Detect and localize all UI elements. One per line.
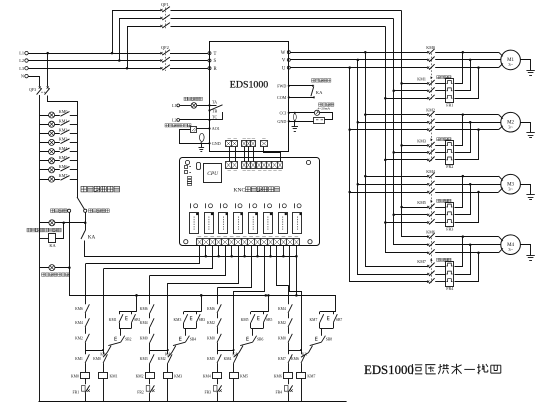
svg-text:QF2: QF2 [161, 45, 169, 50]
contact KM3 group2 [150, 354, 154, 363]
wire branch feed group2 [167, 283, 169, 354]
pin label marks [228, 139, 282, 171]
svg-text:KM6: KM6 [274, 374, 282, 378]
contact KM0 group3 [217, 334, 221, 343]
ground motor M2 [521, 123, 531, 133]
board terminal block 2 [242, 162, 256, 169]
wire sensor loop [320, 113, 333, 120]
transmitter box [314, 118, 325, 124]
stubs mains to KM5 [400, 206, 403, 209]
contact KM2 group2 [168, 354, 172, 363]
group3 left series branch [217, 288, 219, 305]
wire AO1 loop to meter [197, 128, 210, 130]
svg-text:KM2: KM2 [75, 337, 83, 341]
thermal contact FR4 [288, 378, 290, 384]
button SB2 group1 [120, 328, 122, 335]
contactor KM4 [427, 175, 429, 177]
svg-text:V: V [282, 59, 286, 64]
svg-text:L2: L2 [172, 118, 177, 123]
svg-text:KM1: KM1 [110, 374, 118, 378]
chip CPU [204, 164, 222, 183]
junction wires FR to motor rows [462, 235, 465, 238]
controller board KNC box [180, 158, 320, 246]
motor feed row3 [435, 129, 498, 131]
svg-text:EDS1000: EDS1000 [364, 363, 414, 377]
common bus dots [135, 294, 138, 297]
wire KA contact to common jumper [85, 241, 297, 257]
contactor KM5 [427, 206, 429, 208]
svg-text:KM6: KM6 [140, 307, 148, 311]
svg-text:KM6: KM6 [291, 357, 299, 361]
contactor KM0 [427, 51, 429, 53]
svg-text:KNC: KNC [234, 187, 246, 193]
wire branch feed group3 [233, 291, 235, 354]
pin V [287, 58, 290, 61]
svg-text:KM4: KM4 [140, 321, 148, 325]
parallel pair KM/SB7 group4 [320, 311, 336, 313]
svg-text:FR4: FR4 [275, 391, 282, 395]
contact KM2 group4 [288, 318, 292, 327]
common jumper line [205, 255, 208, 258]
board terminal block 1 [226, 162, 238, 169]
motor feed row3 [435, 252, 498, 254]
svg-text:KM0: KM0 [207, 337, 215, 341]
button SB4 group2 [185, 328, 187, 335]
select lamp row KM1 [40, 124, 60, 126]
svg-text:CPU: CPU [207, 171, 219, 177]
wire W row [290, 52, 427, 54]
coil KM3 to rail [167, 378, 169, 401]
relay K6 [264, 213, 273, 234]
motor feed row1 [435, 114, 498, 116]
wire L2 up to QF1 [119, 18, 121, 61]
svg-text:FR3: FR3 [204, 391, 211, 395]
wire mains bus B vertical [394, 19, 428, 245]
svg-text:4~20mA: 4~20mA [318, 106, 331, 110]
wire t9 to group3 chain [218, 246, 252, 288]
label mechanical interlock [437, 199, 440, 202]
pin W [287, 51, 290, 54]
label fault indicator lamp [184, 97, 187, 100]
overload relay FR1 [446, 79, 454, 103]
relay K8 [293, 213, 302, 234]
wires KM3 to FR2 [435, 145, 446, 147]
svg-text:COM: COM [277, 95, 287, 100]
wire inverter bus V vertical [358, 60, 428, 275]
svg-text:SB6: SB6 [257, 337, 264, 341]
inverter bottom terminal block B [242, 141, 256, 147]
pin FWD [288, 85, 290, 87]
wire t3 to group1 branch [104, 246, 213, 269]
coil KM6 [284, 373, 293, 379]
svg-text:KM0: KM0 [93, 357, 101, 361]
contact KM4 group1 [85, 318, 89, 327]
ground motor M4 [521, 245, 531, 256]
relay K2 [205, 213, 214, 234]
manual-mode lamp row [40, 267, 70, 269]
svg-text:KM5: KM5 [240, 374, 248, 378]
svg-text:SB8: SB8 [326, 337, 333, 341]
relay LED 2 [205, 203, 207, 208]
svg-text:KM4: KM4 [203, 374, 211, 378]
pin COM [288, 96, 290, 98]
motor feed row2 [435, 122, 501, 124]
svg-text:KM4: KM4 [278, 307, 286, 311]
svg-text:EDS1000: EDS1000 [230, 79, 268, 90]
terminal L1 [25, 51, 28, 54]
svg-text:TA: TA [212, 99, 217, 104]
svg-text:KM0: KM0 [140, 337, 148, 341]
node U tap [348, 66, 351, 69]
wire t5 to group2 chain [150, 246, 226, 276]
relay LED 6 [264, 203, 266, 208]
mechanical interlock dashed link [431, 238, 433, 283]
relay K3 [219, 213, 228, 234]
fault indicator lamp [180, 105, 192, 107]
svg-text:T: T [214, 52, 217, 57]
pin GND left [208, 142, 210, 144]
select lamp row KM6 [40, 169, 60, 171]
contactor KM2 [427, 114, 429, 116]
pin GND right [288, 120, 290, 122]
mechanical interlock dashed link [431, 53, 433, 99]
coil KM3 [164, 373, 173, 379]
svg-text:FR3: FR3 [446, 227, 453, 232]
svg-text:L3: L3 [19, 66, 24, 71]
contact KM6 group1 [85, 304, 89, 313]
inverter bottom terminal block C [261, 141, 268, 147]
pin TC [208, 119, 210, 121]
svg-text:3~: 3~ [508, 186, 513, 191]
svg-text:KM3: KM3 [417, 138, 426, 143]
wire inverter contact down [85, 212, 87, 222]
svg-text:L1: L1 [172, 103, 177, 108]
overload relay FR3 [446, 203, 454, 227]
stubs mains to KM3 [400, 144, 403, 147]
node L1-QF1 tap [111, 52, 114, 55]
wire branch feed group4 [301, 291, 303, 354]
parallel pair KM/SB5 group3 [251, 311, 269, 313]
svg-text:S: S [214, 59, 217, 64]
group2 split to branch [150, 350, 168, 352]
relay LED 8 [294, 203, 296, 208]
inverter-mode lamp row [40, 222, 85, 224]
svg-text:3~: 3~ [508, 62, 513, 67]
motor M3 [501, 174, 521, 194]
contactor KM3 [427, 144, 429, 146]
wire U row [290, 67, 427, 69]
node L1-QF3 tap [46, 52, 49, 55]
label system select switch [81, 186, 87, 192]
wire GND to transmitter [289, 121, 314, 123]
relay K7 [279, 213, 288, 234]
svg-text:GND: GND [212, 141, 221, 146]
board LEDs [185, 166, 188, 169]
parallel pair KM/SB3 group2 [184, 311, 202, 313]
contactor KM6 [427, 236, 429, 238]
shielded cable marker [200, 133, 205, 141]
svg-text:FR1: FR1 [73, 391, 80, 395]
pin AO1 [208, 127, 210, 129]
select lamp row KM5 [40, 160, 60, 162]
parallel pair KM/SB1 group1 [119, 311, 137, 313]
junction wires FR to motor rows [462, 51, 465, 54]
svg-text:KM2: KM2 [207, 321, 215, 325]
svg-text:KM0: KM0 [71, 374, 79, 378]
pin U [287, 66, 290, 69]
wire branch feed group1 [103, 269, 105, 355]
wire mains bus C vertical [386, 27, 428, 253]
svg-text:L1: L1 [19, 51, 24, 56]
svg-text:FWD: FWD [277, 83, 286, 88]
label run/stop [312, 79, 315, 82]
relay K1 [190, 213, 199, 234]
inverter bottom terminal block A [226, 141, 238, 147]
pressure sensor [289, 112, 315, 114]
contactor KM7 [427, 265, 429, 267]
thermal contact FR1 [85, 378, 87, 384]
thermal contact FR3 [217, 378, 219, 384]
select lamp row KM2 [40, 133, 60, 135]
svg-text:KM2: KM2 [158, 357, 166, 361]
svg-text:QF1: QF1 [161, 2, 169, 7]
coil KM2 [146, 373, 155, 379]
svg-text:KM4: KM4 [75, 321, 83, 325]
svg-text:CCI: CCI [279, 110, 286, 115]
svg-text:KM1: KM1 [75, 357, 83, 361]
relay LED 7 [279, 203, 281, 208]
meter pressure display [191, 127, 197, 133]
junction wires FR to motor rows [462, 113, 465, 116]
ground at AO1 loop [200, 142, 202, 144]
pin R [208, 67, 211, 70]
overload relay FR4 [446, 262, 454, 287]
contact KM0 group1 [103, 354, 107, 363]
svg-text:KM6: KM6 [75, 307, 83, 311]
svg-text:KM6: KM6 [207, 307, 215, 311]
node group1 chain top [135, 294, 138, 297]
coil KM1 [99, 373, 108, 379]
label inverter control indicator [27, 228, 31, 232]
svg-text:3~: 3~ [508, 124, 513, 129]
contact KA group4 [310, 342, 322, 345]
label mechanical interlock [437, 138, 440, 141]
wire L3 to QF2 [28, 68, 160, 70]
select lamp row KM0 [40, 115, 60, 117]
svg-text:KA: KA [49, 243, 56, 248]
svg-text:N: N [21, 74, 24, 79]
svg-text:3~: 3~ [508, 247, 513, 252]
wire t13 to group4 chain [277, 246, 289, 286]
svg-text:KA: KA [316, 90, 323, 95]
svg-text:KM7: KM7 [307, 374, 315, 378]
coil KM7 to rail [301, 378, 303, 401]
contact KA run [289, 85, 313, 87]
terminal L3 [25, 67, 28, 70]
motor M4 [501, 235, 521, 255]
group4 left series branch [288, 285, 290, 304]
svg-text:KM5: KM5 [241, 318, 249, 322]
relay LED 5 [249, 203, 251, 208]
group1 left series branch [85, 264, 87, 305]
label mechanical interlock [437, 76, 440, 79]
group1 split to branch [85, 350, 103, 352]
wire QF3 left pole down - left rail [39, 95, 41, 401]
svg-text:KM3: KM3 [174, 318, 182, 322]
mounting holes [185, 160, 189, 164]
motor feed row2 [435, 244, 501, 246]
svg-text:FR1: FR1 [446, 102, 453, 107]
contact KM1 group1 [85, 354, 89, 363]
svg-text:TC: TC [212, 114, 218, 119]
overload relay FR2 [446, 141, 454, 165]
wires inverter blocks to board blocks [229, 147, 231, 162]
contact KA group2 [173, 342, 185, 345]
button SB6 group3 [252, 328, 254, 335]
coil KM1 to rail [103, 378, 105, 401]
stubs inverter to KM2 [364, 113, 367, 116]
svg-text:QF3: QF3 [29, 87, 36, 92]
board terminal block 3 [257, 162, 283, 169]
pin TB [208, 109, 210, 111]
coil KM5 to rail [233, 378, 235, 401]
coil KM0 [81, 373, 90, 379]
pin T [208, 52, 211, 55]
node V tap [357, 59, 360, 62]
svg-text:FR2: FR2 [137, 391, 144, 395]
contact KM4 group3 [234, 354, 238, 363]
svg-text:KM2: KM2 [278, 321, 286, 325]
wire QF1 out to mains bus corners [171, 10, 402, 12]
wire manual node to common bus [70, 268, 336, 312]
relay LED 1 [190, 203, 192, 208]
contact KM2 group3 [217, 318, 221, 327]
coil KM4 [213, 373, 222, 379]
svg-text:W: W [281, 51, 286, 56]
contact KM5 group3 [217, 354, 221, 363]
wire L1 up to QF1 [112, 10, 114, 53]
contact KA selector [85, 223, 87, 231]
group2 left series branch [149, 276, 151, 305]
select lamp row KM7 [40, 179, 60, 181]
svg-text:KM1: KM1 [417, 76, 426, 81]
svg-text:KM1: KM1 [109, 318, 117, 322]
pin S [208, 59, 211, 62]
thermal contact FR2 [149, 378, 151, 384]
ground motor M1 [521, 60, 531, 71]
motor M1 [501, 50, 521, 70]
motor feed row1 [435, 176, 498, 178]
svg-text:KM5: KM5 [417, 200, 426, 205]
terminal N [25, 74, 28, 77]
node group2 chain top [200, 294, 203, 297]
mechanical interlock dashed link [431, 177, 433, 223]
motor feed row1 [435, 52, 498, 54]
coil KM5 [230, 373, 239, 379]
svg-text:SB5: SB5 [266, 318, 273, 322]
cable marker CCI [294, 112, 296, 114]
wire V row [290, 59, 427, 61]
svg-text:KM0: KM0 [278, 337, 286, 341]
svg-text:KM7: KM7 [417, 259, 426, 264]
motor feed row3 [435, 67, 498, 69]
wire L2 to QF2 [28, 60, 160, 62]
svg-text:GND: GND [277, 119, 286, 124]
contact KM2 group1 [85, 334, 89, 343]
svg-text:FR2: FR2 [446, 164, 453, 169]
ground at CCI [294, 121, 296, 126]
group4 split to branch [288, 350, 301, 352]
bottom common rail [39, 401, 347, 403]
svg-text:SB4: SB4 [190, 337, 197, 341]
wire manual contact down [69, 212, 71, 267]
wires KM5 to FR3 [435, 207, 446, 209]
wire t11 to group3 branch [234, 246, 265, 292]
svg-text:AO1: AO1 [212, 126, 220, 131]
terminal L2 [25, 59, 28, 62]
ground motor M3 [521, 185, 531, 195]
wire QF2 to R S T [170, 53, 208, 55]
wire N to QF3 [29, 77, 40, 87]
svg-text:KM3: KM3 [174, 374, 182, 378]
motor feed row2 [435, 59, 501, 61]
contact KM0 group4 [288, 334, 292, 343]
stubs inverter to KM4 [364, 175, 367, 178]
relay coil KA [40, 238, 49, 240]
board output terminal strip [197, 239, 300, 246]
contact KM6 group2 [150, 304, 154, 313]
wire t7 to group2 branch [168, 246, 239, 284]
selector contact manual [68, 209, 71, 212]
node L2-QF1 tap [118, 59, 121, 62]
button SB8 group4 [321, 328, 323, 335]
svg-text:L2: L2 [19, 58, 24, 63]
wire inverter bus W vertical [366, 53, 428, 267]
contact KM7 group4 [288, 354, 292, 363]
label pressure/frequency display [165, 124, 168, 127]
svg-text:KM7: KM7 [278, 357, 286, 361]
coil KM7 [297, 373, 306, 379]
label pressure feedback 4-20mA [319, 103, 322, 106]
select lamp row KM3 [40, 142, 60, 144]
label mechanical interlock [437, 258, 440, 261]
mechanical interlock dashed link [431, 116, 433, 161]
wire L1 to QF2 [28, 53, 160, 55]
svg-text:KM7: KM7 [310, 318, 318, 322]
svg-text:SB7: SB7 [336, 318, 343, 322]
svg-text:KM2: KM2 [136, 374, 144, 378]
svg-text:SB2: SB2 [125, 337, 132, 341]
inverter EDS1000 box [210, 42, 289, 152]
svg-text:U: U [282, 66, 286, 71]
contact KM6 group3 [217, 304, 221, 313]
wire t16 to common bus [296, 256, 298, 295]
contact KM6 group4 [301, 354, 305, 363]
stubs mains to KM1 [400, 82, 403, 85]
relay K5 [249, 213, 258, 234]
motor feed row1 [435, 236, 498, 238]
contact KM4 group4 [288, 304, 292, 313]
contact KA group1 [108, 342, 120, 345]
relay K4 [234, 213, 243, 234]
wire L3 up to QF1 [127, 26, 129, 68]
svg-text:KA: KA [88, 235, 96, 241]
svg-text:FR4: FR4 [446, 286, 453, 291]
contactor KM1 [427, 82, 429, 84]
wires KM1 to FR1 [435, 83, 446, 85]
node L3-QF1 tap [126, 67, 129, 70]
group3 split to branch [217, 350, 234, 352]
